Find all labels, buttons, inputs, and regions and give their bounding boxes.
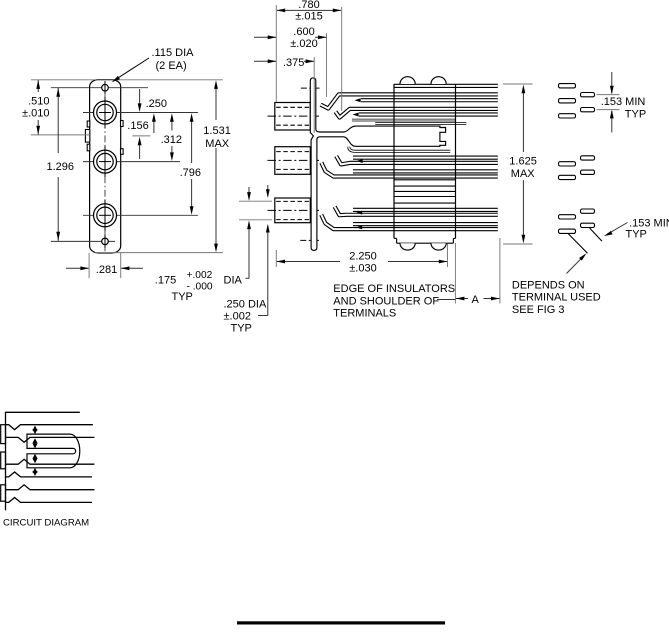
svg-text:.312: .312: [161, 134, 182, 146]
svg-text:.510: .510: [28, 96, 49, 108]
svg-text:1.531: 1.531: [203, 125, 231, 137]
svg-text:±.015: ±.015: [295, 11, 322, 23]
svg-text:TYP: TYP: [231, 323, 252, 335]
svg-text:TYP: TYP: [172, 291, 193, 303]
svg-text:.250: .250: [146, 98, 167, 110]
svg-text:SEE FIG 3: SEE FIG 3: [512, 304, 565, 316]
svg-text:A: A: [472, 294, 480, 306]
svg-text:.115 DIA: .115 DIA: [152, 47, 195, 59]
svg-text:.156: .156: [127, 120, 148, 132]
svg-text:.600: .600: [293, 26, 314, 38]
svg-text:.250 DIA: .250 DIA: [224, 299, 267, 311]
svg-text:DIA: DIA: [224, 275, 243, 287]
svg-text:DEPENDS ON: DEPENDS ON: [512, 279, 585, 291]
svg-text:2.250: 2.250: [349, 250, 377, 262]
svg-text:TYP: TYP: [625, 109, 646, 121]
svg-text:.796: .796: [180, 167, 201, 179]
svg-text:1.625: 1.625: [509, 156, 537, 168]
svg-text:EDGE OF INSULATORS: EDGE OF INSULATORS: [333, 283, 455, 295]
svg-text:TERMINAL USED: TERMINAL USED: [512, 292, 601, 304]
svg-text:CIRCUIT DIAGRAM: CIRCUIT DIAGRAM: [3, 518, 89, 529]
svg-text:MAX: MAX: [205, 138, 230, 150]
svg-text:AND SHOULDER OF: AND SHOULDER OF: [333, 295, 439, 307]
svg-text:TERMINALS: TERMINALS: [333, 308, 396, 320]
svg-text:.153 MIN: .153 MIN: [601, 96, 646, 108]
svg-text:+.002: +.002: [187, 270, 213, 281]
svg-text:±.002: ±.002: [224, 311, 251, 323]
svg-text:(2 EA): (2 EA): [156, 60, 187, 72]
svg-text:MAX: MAX: [511, 168, 536, 180]
svg-text:±.010: ±.010: [22, 108, 49, 120]
svg-text:.175: .175: [155, 275, 176, 287]
svg-text:.281: .281: [96, 264, 117, 276]
svg-text:1.296: 1.296: [47, 161, 75, 173]
svg-text:TYP: TYP: [626, 228, 647, 240]
svg-text:.375: .375: [283, 57, 304, 69]
svg-text:±.020: ±.020: [290, 38, 317, 50]
svg-text:±.030: ±.030: [349, 262, 376, 274]
